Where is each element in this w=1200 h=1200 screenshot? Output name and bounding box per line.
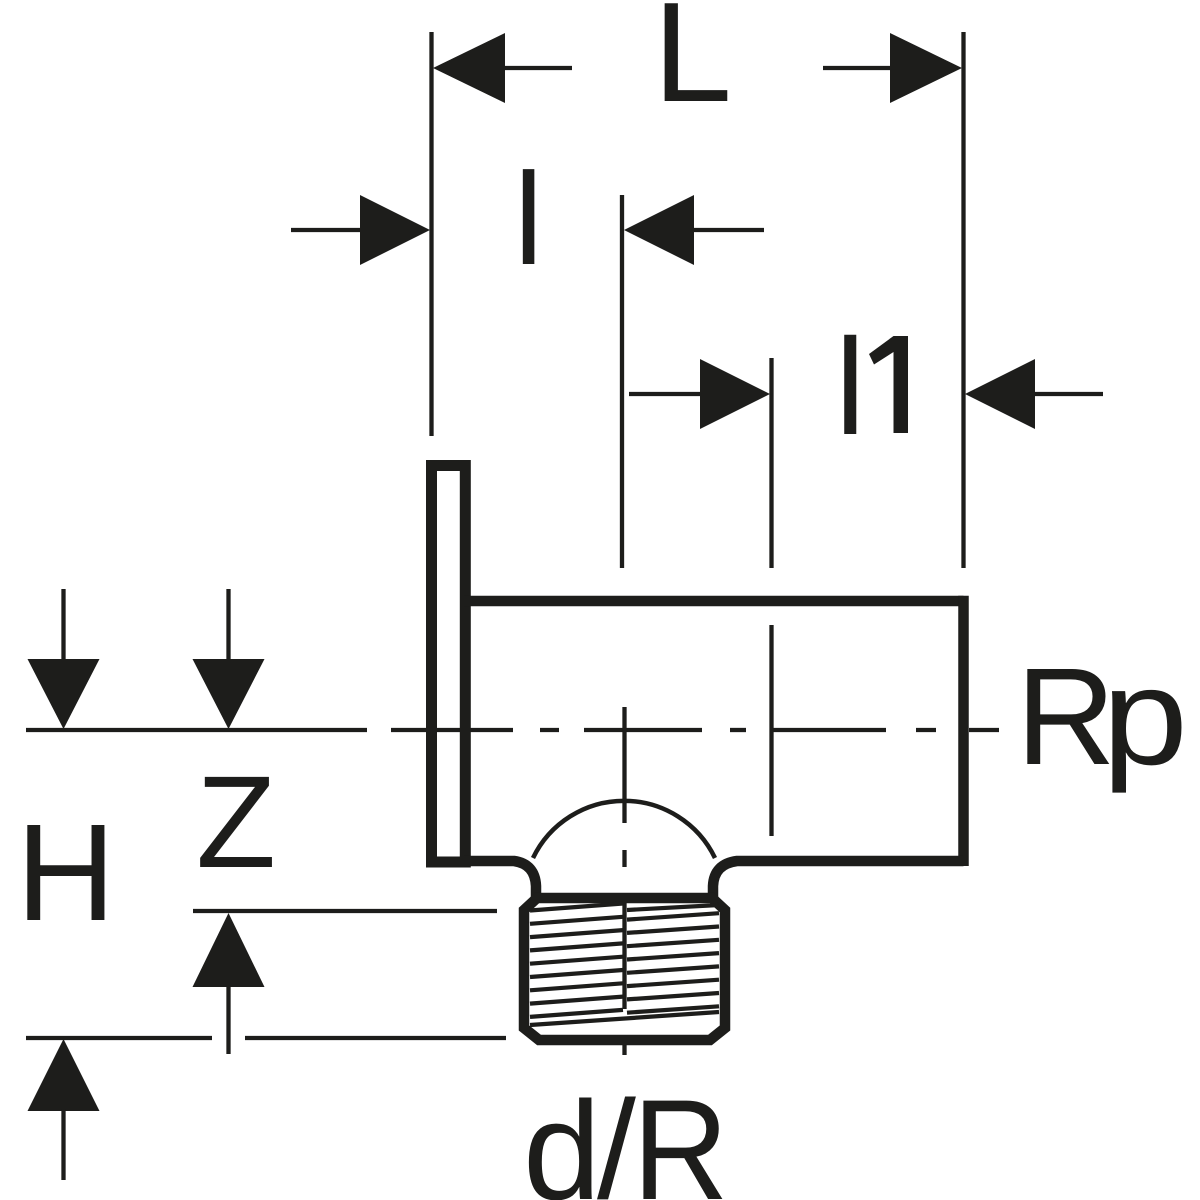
extension line l right (x=622) xyxy=(620,195,624,568)
L left tail xyxy=(503,66,572,70)
L right arrowhead xyxy=(890,33,962,103)
svg-text:d: d xyxy=(523,1072,601,1200)
body outline xyxy=(464,596,964,897)
l right tail xyxy=(694,228,764,232)
l left tail xyxy=(291,228,362,232)
wall flange plate xyxy=(432,466,466,863)
svg-text:H: H xyxy=(16,796,116,950)
threaded spigot outline xyxy=(524,898,725,1040)
body bottom edge left + left neck fillet xyxy=(464,861,536,897)
l1 right arrowhead xyxy=(965,359,1035,429)
spigot dome arc xyxy=(533,801,715,858)
Z bottom extension line (y=911) xyxy=(193,909,497,913)
dimension L xyxy=(433,0,962,132)
l1 left arrowhead xyxy=(700,359,770,429)
svg-text:L: L xyxy=(653,0,732,132)
l right arrowhead xyxy=(624,195,694,265)
L right tail xyxy=(823,66,893,70)
svg-text:l: l xyxy=(514,145,543,292)
svg-text:R: R xyxy=(1016,640,1116,794)
body top edge xyxy=(464,596,964,607)
body bottom edge right + right neck fillet xyxy=(713,861,964,897)
socket depth line inside body (x=771.5) xyxy=(769,625,773,836)
dimension l1 xyxy=(629,311,1103,464)
outlet vertical centerline dashes (x=624.5) xyxy=(622,707,626,1055)
H bottom up arrow xyxy=(28,1039,100,1180)
l left arrowhead xyxy=(360,195,430,265)
svg-text:R: R xyxy=(633,1071,729,1200)
l1 right tail xyxy=(1035,392,1103,396)
extension line l1 left upper (x=771.5) xyxy=(769,358,773,568)
H bottom extension line (y=1038) xyxy=(26,1036,212,1040)
svg-text:l: l xyxy=(835,311,865,464)
thread hatch lines xyxy=(530,904,719,1026)
extension line right (x=963.5) xyxy=(961,32,965,568)
l1 left tail xyxy=(629,392,700,396)
body right end face xyxy=(958,596,969,866)
horizontal axis centerline dashes xyxy=(391,728,999,732)
svg-text:Z: Z xyxy=(196,748,276,895)
svg-text:/: / xyxy=(597,1071,636,1200)
Z top down arrow xyxy=(193,589,265,729)
centerline level extension (y=730) xyxy=(26,728,367,732)
svg-text:p: p xyxy=(1102,640,1188,794)
extension line left (L/l start, x=431.5) xyxy=(429,32,433,436)
L left arrowhead xyxy=(433,33,505,103)
H top down arrow xyxy=(28,589,100,729)
dimension l xyxy=(291,145,764,292)
Z bottom up arrow xyxy=(193,913,265,1054)
